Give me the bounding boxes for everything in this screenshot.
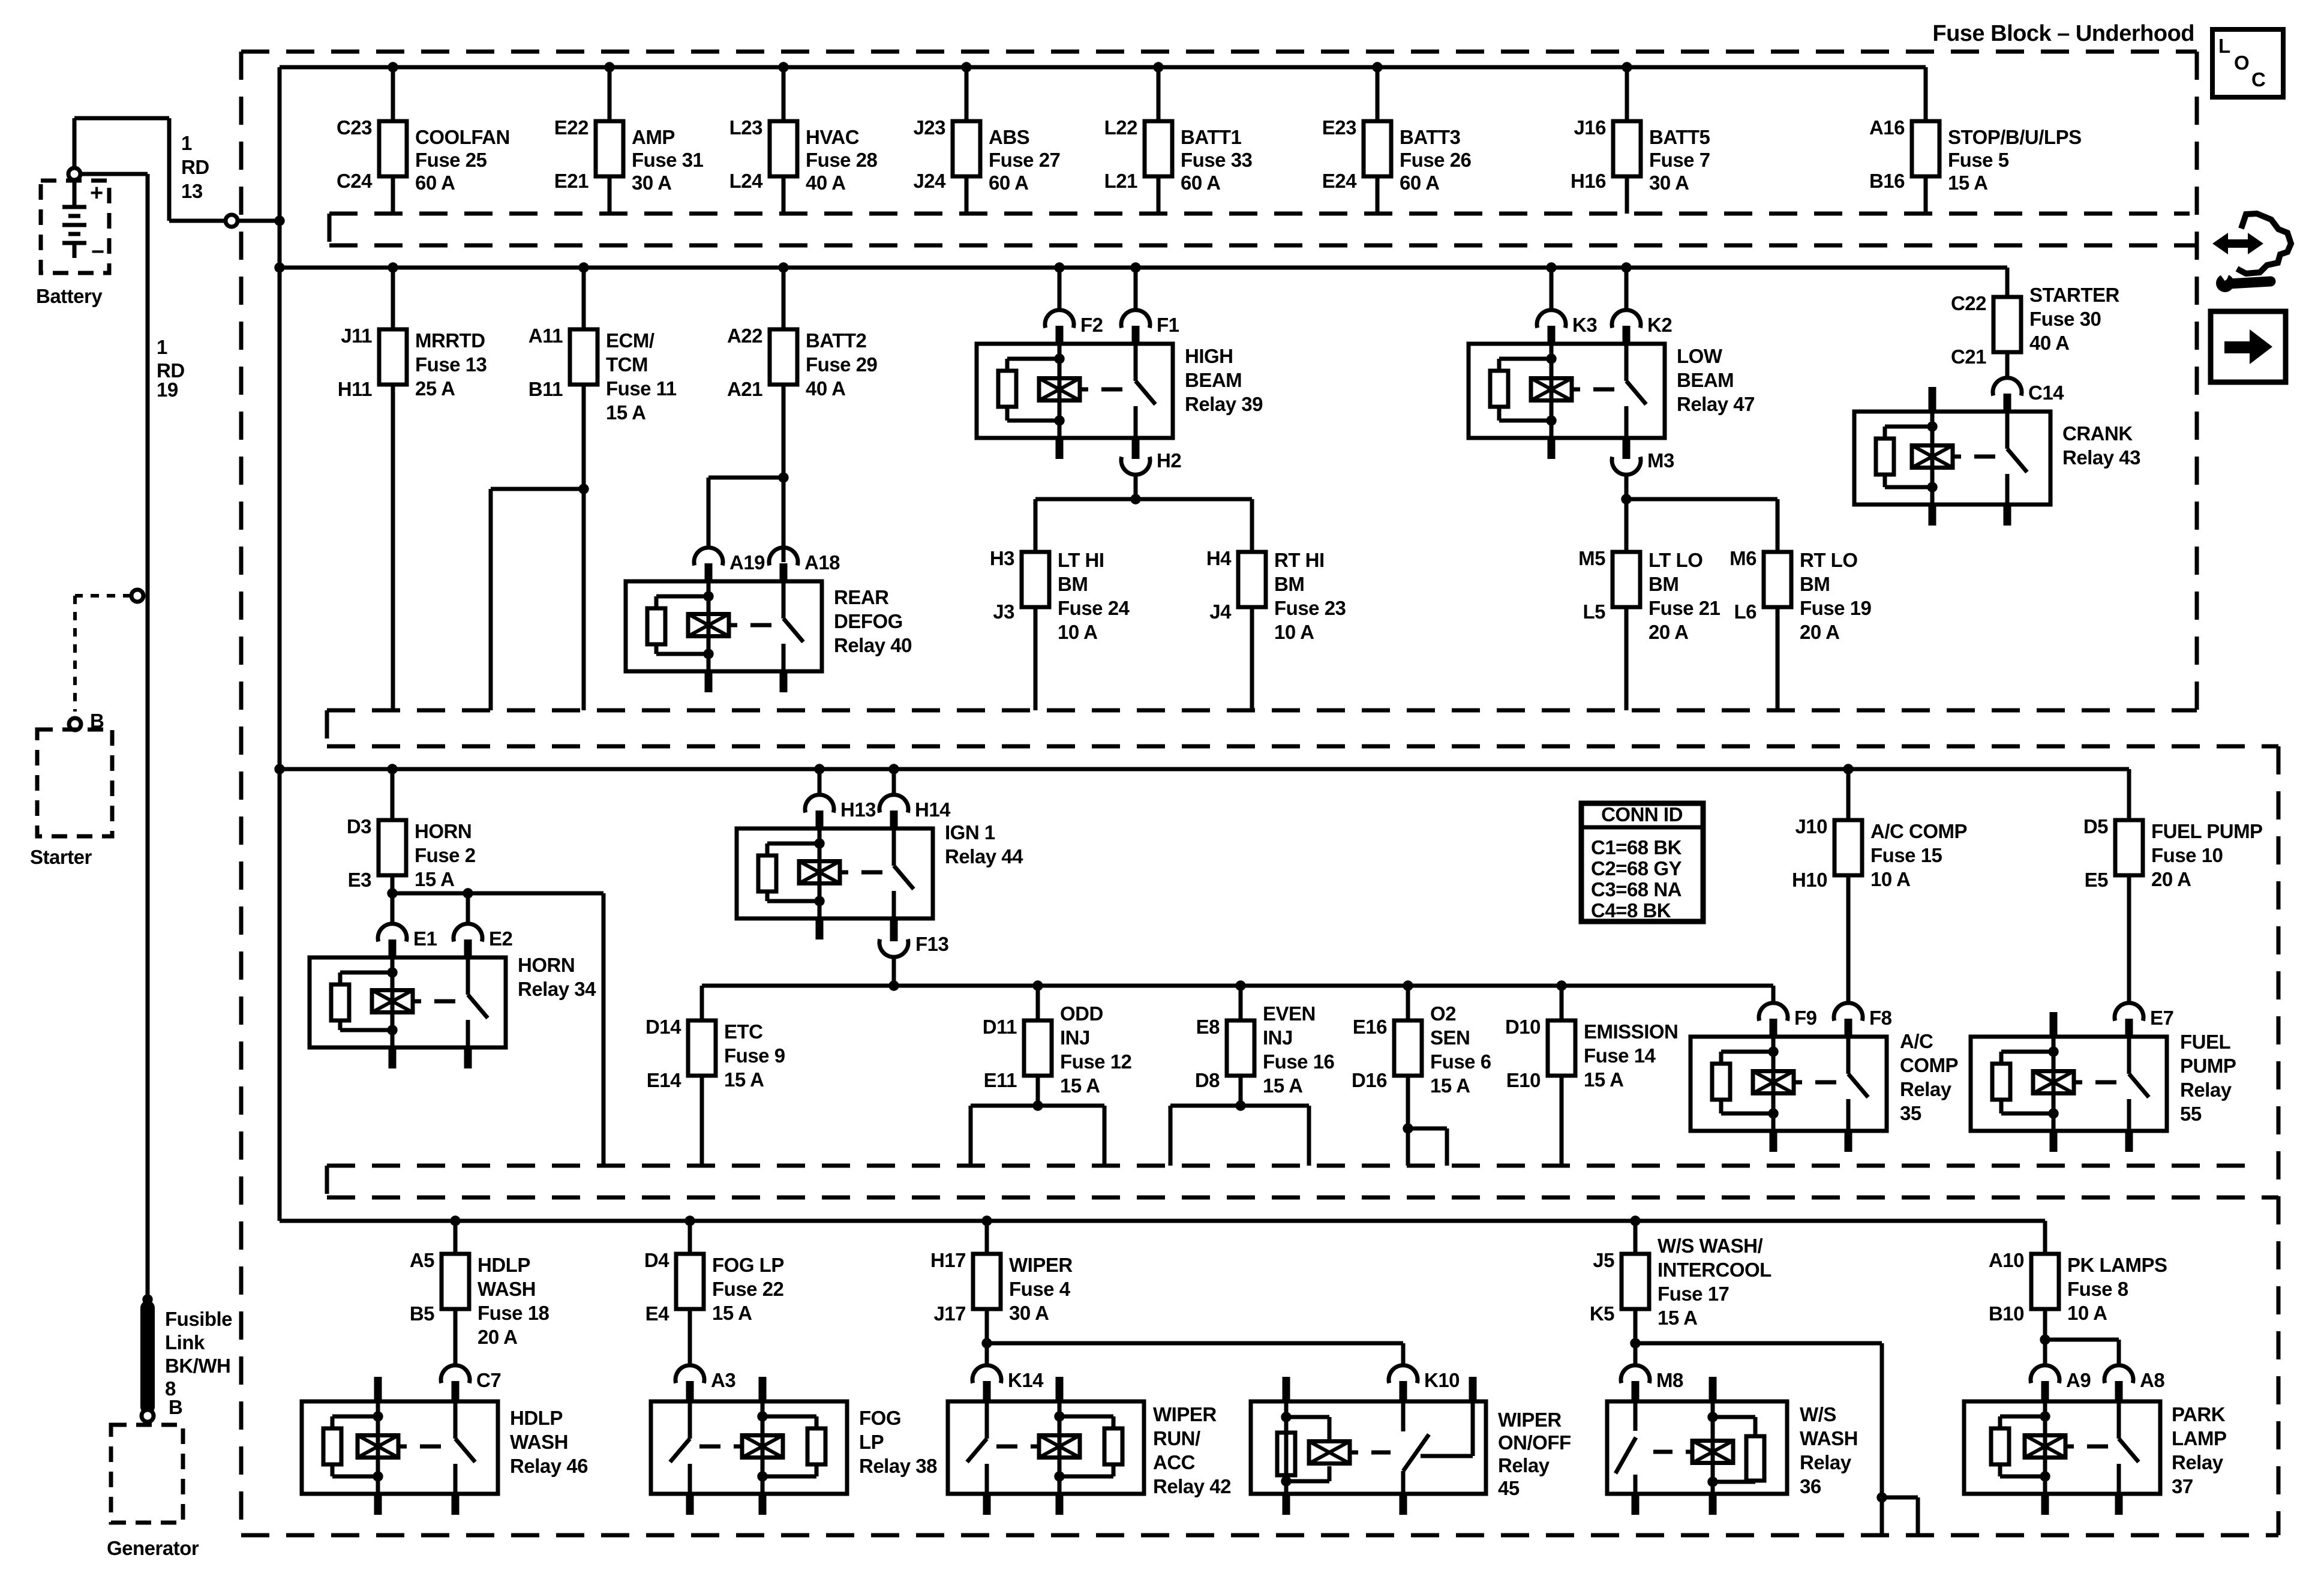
svg-text:30 A: 30 A [632,172,671,194]
svg-text:+: + [90,181,103,206]
svg-text:10 A: 10 A [1870,868,1910,890]
svg-text:Relay 44: Relay 44 [945,845,1023,867]
svg-text:LT LO: LT LO [1649,549,1703,571]
svg-text:Battery: Battery [36,285,103,307]
svg-text:15 A: 15 A [724,1068,764,1091]
svg-text:L23: L23 [729,116,763,139]
svg-text:FUEL PUMP: FUEL PUMP [2151,820,2263,842]
svg-text:WASH: WASH [1800,1427,1858,1449]
svg-text:BM: BM [1274,573,1304,595]
svg-text:1: 1 [157,336,167,358]
svg-text:Relay 40: Relay 40 [834,634,912,656]
svg-text:ODD: ODD [1060,1002,1103,1025]
svg-text:Relay: Relay [1900,1078,1952,1100]
svg-text:K5: K5 [1590,1302,1614,1325]
svg-text:Fuse 5: Fuse 5 [1948,149,2009,171]
svg-text:Fuse 16: Fuse 16 [1263,1050,1335,1073]
svg-text:Fuse 23: Fuse 23 [1274,597,1346,619]
svg-text:15 A: 15 A [415,868,454,890]
svg-text:HORN: HORN [415,820,472,842]
svg-text:D5: D5 [2083,815,2108,837]
svg-text:40 A: 40 A [2029,332,2069,354]
svg-text:15 A: 15 A [1658,1307,1697,1329]
svg-text:Fuse 6: Fuse 6 [1430,1050,1491,1073]
svg-text:J17: J17 [933,1302,966,1325]
svg-text:INJ: INJ [1263,1026,1293,1049]
svg-text:WIPER: WIPER [1009,1254,1073,1276]
svg-text:L22: L22 [1104,116,1138,139]
svg-text:B16: B16 [1869,170,1905,192]
svg-text:10 A: 10 A [1274,621,1314,643]
svg-text:15 A: 15 A [712,1302,752,1324]
svg-text:E11: E11 [984,1069,1017,1091]
svg-text:DEFOG: DEFOG [834,610,903,632]
svg-text:Fuse 21: Fuse 21 [1649,597,1721,619]
svg-text:A9: A9 [2066,1369,2091,1391]
svg-text:INJ: INJ [1060,1026,1090,1049]
svg-text:LOW: LOW [1677,345,1723,367]
svg-text:J3: J3 [993,601,1014,623]
svg-text:STARTER: STARTER [2029,284,2120,306]
svg-text:C22: C22 [1951,292,1986,314]
svg-text:C2=68 GY: C2=68 GY [1591,857,1682,879]
svg-text:J24: J24 [913,170,946,192]
svg-text:J23: J23 [913,116,945,139]
svg-text:Generator: Generator [107,1537,199,1559]
svg-text:Fuse 22: Fuse 22 [712,1278,784,1300]
svg-text:H11: H11 [338,378,372,400]
svg-text:F2: F2 [1080,314,1103,336]
svg-text:45: 45 [1498,1477,1520,1499]
svg-text:A22: A22 [727,325,762,347]
svg-text:L24: L24 [729,170,764,192]
svg-text:A5: A5 [410,1249,434,1271]
svg-text:H2: H2 [1157,449,1181,472]
svg-text:Fuse 29: Fuse 29 [806,353,878,376]
svg-text:E3: E3 [348,869,372,891]
svg-text:Fuse 28: Fuse 28 [806,149,878,171]
svg-text:RT HI: RT HI [1274,549,1325,571]
svg-text:RT LO: RT LO [1800,549,1857,571]
svg-text:FUEL: FUEL [2180,1031,2231,1053]
svg-text:Relay 38: Relay 38 [859,1455,937,1477]
svg-text:40 A: 40 A [806,172,845,194]
svg-text:COMP: COMP [1900,1054,1958,1076]
svg-text:A16: A16 [1869,116,1905,139]
svg-text:Fuse 27: Fuse 27 [989,149,1060,171]
svg-text:F9: F9 [1794,1007,1817,1029]
svg-text:D10: D10 [1505,1016,1541,1038]
svg-text:B: B [169,1396,182,1418]
svg-text:SEN: SEN [1430,1026,1470,1049]
svg-text:Fuse 14: Fuse 14 [1584,1044,1656,1067]
svg-text:Relay 43: Relay 43 [2062,446,2140,469]
svg-text:M6: M6 [1730,547,1756,569]
svg-text:H10: H10 [1792,869,1827,891]
svg-text:30 A: 30 A [1009,1302,1049,1324]
svg-text:15 A: 15 A [1948,172,1987,194]
svg-text:H14: H14 [915,798,951,821]
svg-text:Fuse 4: Fuse 4 [1009,1278,1071,1300]
svg-text:Relay 42: Relay 42 [1153,1475,1231,1497]
svg-text:J16: J16 [1574,116,1606,139]
svg-text:TCM: TCM [606,353,648,376]
svg-text:WIPER: WIPER [1153,1403,1217,1425]
svg-text:15 A: 15 A [1584,1068,1623,1091]
svg-text:Fuse 30: Fuse 30 [2029,308,2101,330]
svg-text:E5: E5 [2085,869,2109,891]
svg-text:ON/OFF: ON/OFF [1498,1431,1571,1454]
svg-text:30 A: 30 A [1649,172,1689,194]
svg-text:1: 1 [181,132,192,154]
svg-text:Relay: Relay [2172,1451,2224,1473]
svg-text:Fuse 8: Fuse 8 [2067,1278,2128,1300]
svg-text:HDLP: HDLP [510,1407,563,1429]
svg-text:IGN 1: IGN 1 [945,821,995,843]
svg-text:20 A: 20 A [1800,621,1839,643]
svg-text:15 A: 15 A [606,401,645,424]
svg-text:Fuse 2: Fuse 2 [415,844,476,866]
svg-text:W/S WASH/: W/S WASH/ [1658,1235,1762,1257]
svg-text:E21: E21 [554,170,588,192]
svg-text:C1=68 BK: C1=68 BK [1591,836,1682,858]
svg-text:WIPER: WIPER [1498,1409,1562,1431]
svg-text:Fuse 33: Fuse 33 [1181,149,1253,171]
svg-text:ETC: ETC [724,1020,763,1043]
svg-text:Relay 34: Relay 34 [518,978,596,1000]
svg-text:M5: M5 [1578,547,1605,569]
svg-text:F8: F8 [1869,1007,1892,1029]
svg-text:Relay 39: Relay 39 [1185,393,1263,415]
svg-text:36: 36 [1800,1475,1821,1497]
svg-text:M3: M3 [1647,449,1674,472]
svg-text:10 A: 10 A [1058,621,1097,643]
svg-text:J11: J11 [341,325,372,347]
svg-text:RD: RD [181,156,209,178]
svg-text:HDLP: HDLP [478,1254,530,1276]
svg-text:A18: A18 [804,551,840,574]
svg-text:BM: BM [1800,573,1830,595]
svg-text:E24: E24 [1322,170,1357,192]
svg-text:BATT5: BATT5 [1649,126,1710,148]
svg-text:−: − [91,239,104,265]
svg-text:COOLFAN: COOLFAN [415,126,510,148]
svg-text:Fusible: Fusible [165,1308,232,1330]
svg-text:60 A: 60 A [415,172,455,194]
svg-text:Fuse 13: Fuse 13 [415,353,487,376]
svg-text:H4: H4 [1206,547,1232,569]
svg-text:H16: H16 [1571,170,1606,192]
svg-text:L6: L6 [1734,601,1756,623]
svg-text:H3: H3 [990,547,1014,569]
svg-text:FOG LP: FOG LP [712,1254,784,1276]
svg-text:B11: B11 [529,378,563,400]
svg-text:PK LAMPS: PK LAMPS [2067,1254,2167,1276]
svg-text:Fuse 26: Fuse 26 [1400,149,1472,171]
svg-text:PARK: PARK [2172,1403,2226,1425]
svg-text:E23: E23 [1322,116,1356,139]
svg-text:MRRTD: MRRTD [415,329,485,352]
svg-text:A8: A8 [2140,1369,2164,1391]
svg-text:D8: D8 [1195,1069,1220,1091]
svg-text:20 A: 20 A [2151,868,2191,890]
svg-text:A10: A10 [1989,1249,2024,1271]
svg-text:LAMP: LAMP [2172,1427,2227,1449]
svg-text:C4=8 BK: C4=8 BK [1591,899,1671,921]
svg-text:C21: C21 [1951,346,1986,368]
svg-text:D3: D3 [347,815,371,837]
svg-text:20 A: 20 A [1649,621,1688,643]
svg-text:Fuse 17: Fuse 17 [1658,1283,1729,1305]
svg-text:Relay 46: Relay 46 [510,1455,588,1477]
svg-text:RUN/: RUN/ [1153,1427,1200,1449]
svg-text:EVEN: EVEN [1263,1002,1316,1025]
svg-text:Fuse 24: Fuse 24 [1058,597,1130,619]
svg-text:55: 55 [2180,1103,2202,1125]
svg-text:BEAM: BEAM [1677,369,1734,391]
svg-text:19: 19 [157,379,178,401]
svg-text:A3: A3 [711,1369,735,1391]
svg-text:STOP/B/U/LPS: STOP/B/U/LPS [1948,126,2082,148]
svg-text:K3: K3 [1572,314,1597,336]
svg-text:Fuse 7: Fuse 7 [1649,149,1710,171]
svg-text:L5: L5 [1583,601,1605,623]
svg-text:C23: C23 [337,116,372,139]
svg-text:10 A: 10 A [2067,1302,2107,1324]
svg-text:Link: Link [165,1331,205,1353]
svg-text:B5: B5 [410,1302,434,1325]
svg-text:K2: K2 [1647,314,1672,336]
svg-text:C24: C24 [337,170,373,192]
svg-text:E22: E22 [554,116,588,139]
svg-text:E2: E2 [489,927,513,950]
svg-text:AMP: AMP [632,126,675,148]
svg-text:35: 35 [1900,1102,1921,1124]
svg-text:Relay: Relay [1800,1451,1852,1473]
svg-text:Fuse 10: Fuse 10 [2151,844,2223,866]
svg-text:L: L [2218,35,2230,57]
svg-text:E1: E1 [413,927,437,950]
svg-text:CONN ID: CONN ID [1601,803,1683,825]
svg-text:REAR: REAR [834,586,889,608]
svg-text:E14: E14 [647,1069,681,1091]
svg-text:60 A: 60 A [1181,172,1220,194]
svg-text:Relay: Relay [1498,1454,1550,1476]
svg-text:Relay: Relay [2180,1079,2232,1101]
svg-text:WASH: WASH [478,1278,536,1300]
svg-text:BATT2: BATT2 [806,329,867,352]
svg-text:H13: H13 [840,798,876,821]
svg-text:B10: B10 [1989,1302,2024,1325]
svg-text:O2: O2 [1430,1002,1456,1025]
svg-text:J4: J4 [1209,601,1232,623]
svg-text:H17: H17 [930,1249,966,1271]
svg-text:ACC: ACC [1153,1451,1195,1473]
svg-text:13: 13 [181,180,203,202]
svg-text:INTERCOOL: INTERCOOL [1658,1259,1771,1281]
svg-text:A21: A21 [727,378,762,400]
svg-text:E10: E10 [1506,1069,1541,1091]
svg-text:BEAM: BEAM [1185,369,1242,391]
svg-text:60 A: 60 A [1400,172,1439,194]
svg-text:D4: D4 [644,1249,669,1271]
svg-text:BK/WH: BK/WH [165,1355,230,1377]
svg-text:PUMP: PUMP [2180,1055,2236,1077]
svg-text:K14: K14 [1008,1369,1044,1391]
svg-text:A11: A11 [529,325,563,347]
svg-text:Relay 47: Relay 47 [1677,393,1755,415]
svg-text:K10: K10 [1424,1369,1460,1391]
svg-text:Fuse 18: Fuse 18 [478,1302,550,1324]
svg-text:C3=68 NA: C3=68 NA [1591,878,1682,900]
svg-text:BM: BM [1649,573,1679,595]
svg-text:Fuse 15: Fuse 15 [1870,844,1942,866]
svg-text:Fuse 19: Fuse 19 [1800,597,1872,619]
svg-text:BM: BM [1058,573,1088,595]
svg-text:LP: LP [859,1431,884,1453]
svg-text:A19: A19 [729,551,765,574]
svg-text:C14: C14 [2028,382,2064,404]
svg-text:ABS: ABS [989,126,1029,148]
svg-text:HVAC: HVAC [806,126,859,148]
svg-text:E7: E7 [2150,1007,2173,1029]
svg-text:15 A: 15 A [1430,1074,1470,1097]
svg-text:M8: M8 [1656,1369,1683,1391]
svg-text:HIGH: HIGH [1185,345,1233,367]
svg-text:J5: J5 [1593,1249,1614,1271]
svg-text:25 A: 25 A [415,377,455,400]
svg-text:Fuse 9: Fuse 9 [724,1044,785,1067]
svg-text:D16: D16 [1352,1069,1387,1091]
svg-text:FOG: FOG [859,1407,901,1429]
svg-text:Fuse 12: Fuse 12 [1060,1050,1132,1073]
svg-text:C: C [2251,68,2265,91]
svg-text:Starter: Starter [30,846,92,868]
svg-text:F1: F1 [1157,314,1179,336]
svg-text:37: 37 [2172,1475,2193,1497]
svg-text:A/C COMP: A/C COMP [1870,820,1967,842]
svg-text:CRANK: CRANK [2062,422,2133,445]
svg-text:WASH: WASH [510,1431,568,1453]
svg-text:BATT1: BATT1 [1181,126,1242,148]
svg-text:Fuse Block – Underhood: Fuse Block – Underhood [1932,21,2194,46]
svg-text:LT HI: LT HI [1058,549,1104,571]
svg-text:40 A: 40 A [806,377,845,400]
svg-text:F13: F13 [915,933,949,955]
svg-text:BATT3: BATT3 [1400,126,1461,148]
svg-text:W/S: W/S [1800,1403,1836,1425]
svg-text:A/C: A/C [1900,1030,1933,1052]
svg-text:C7: C7 [476,1369,501,1391]
svg-text:D11: D11 [983,1016,1017,1038]
svg-text:Fuse 25: Fuse 25 [415,149,487,171]
svg-text:Fuse 11: Fuse 11 [606,377,677,400]
svg-text:20 A: 20 A [478,1326,517,1348]
svg-text:D14: D14 [645,1016,681,1038]
svg-text:E4: E4 [645,1302,670,1325]
svg-text:EMISSION: EMISSION [1584,1020,1678,1043]
svg-text:Fuse 31: Fuse 31 [632,149,704,171]
svg-text:E16: E16 [1353,1016,1387,1038]
svg-text:60 A: 60 A [989,172,1028,194]
svg-text:ECM/: ECM/ [606,329,654,352]
svg-text:E8: E8 [1196,1016,1220,1038]
svg-text:L21: L21 [1104,170,1138,192]
svg-text:15 A: 15 A [1263,1074,1302,1097]
svg-text:15 A: 15 A [1060,1074,1100,1097]
svg-text:HORN: HORN [518,954,575,976]
svg-text:O: O [2234,52,2249,74]
svg-text:J10: J10 [1795,815,1827,837]
